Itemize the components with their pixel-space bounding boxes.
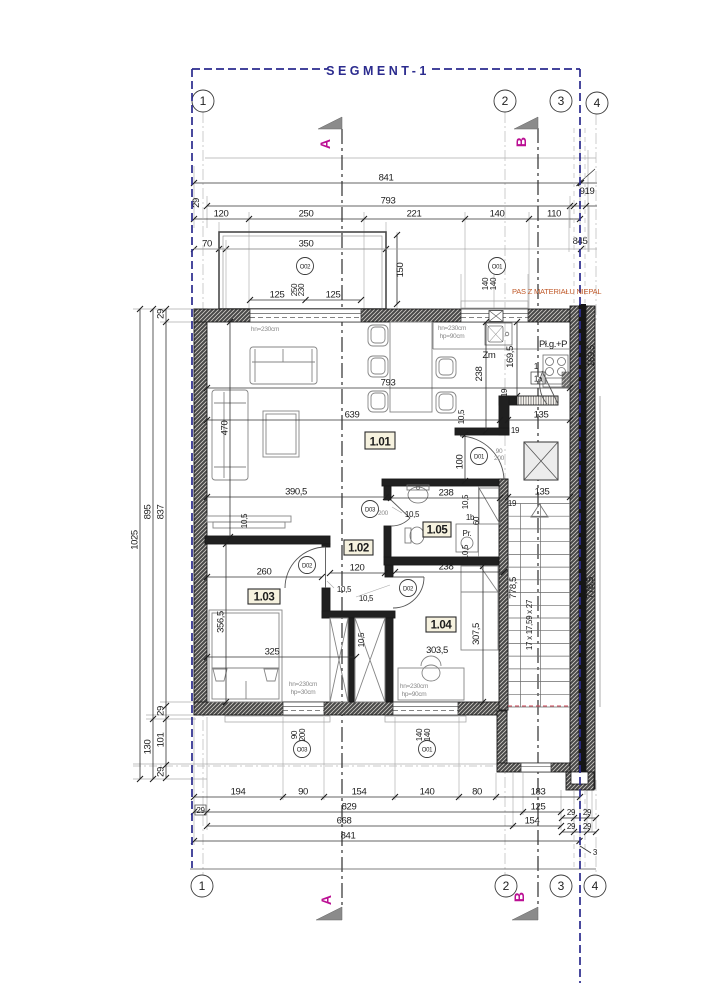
window terrace door — [250, 309, 361, 322]
sofa vertical — [212, 390, 248, 480]
dim stair 135 upper — [508, 419, 570, 421]
window marker O03 bottom — [290, 728, 311, 758]
svg-text:D01: D01 — [474, 455, 485, 461]
bed — [209, 610, 282, 702]
wardrobe divider — [348, 618, 354, 702]
segment dashed border — [192, 69, 580, 983]
outer wall bottom — [194, 702, 507, 715]
grid bubble 2 — [494, 90, 516, 112]
svg-text:841: 841 — [379, 173, 394, 184]
svg-text:29: 29 — [567, 822, 576, 831]
svg-text:200: 200 — [298, 728, 307, 741]
svg-text:135: 135 — [535, 487, 550, 498]
svg-text:1.03: 1.03 — [254, 592, 275, 604]
svg-text:120: 120 — [214, 209, 229, 220]
svg-text:29: 29 — [583, 808, 592, 817]
svg-text:hp=90cm: hp=90cm — [440, 333, 465, 340]
svg-text:140: 140 — [420, 787, 435, 798]
dim 169.5 kitchen — [516, 322, 518, 396]
grid bubble 1 — [192, 90, 214, 112]
svg-text:10,5: 10,5 — [461, 544, 470, 559]
wall bedroom/hall W2 lower — [322, 588, 330, 618]
svg-text:154: 154 — [525, 816, 540, 827]
svg-text:4: 4 — [594, 96, 601, 110]
dining chairs — [368, 325, 456, 413]
svg-text:350: 350 — [299, 239, 314, 250]
segment title — [327, 62, 430, 73]
svg-text:hn=230cm: hn=230cm — [289, 681, 317, 688]
svg-text:169,5: 169,5 — [586, 345, 597, 367]
svg-text:hn=230cm: hn=230cm — [438, 325, 466, 332]
dim 470 interior — [229, 322, 231, 537]
svg-text:1.05: 1.05 — [427, 525, 449, 537]
window marker O02 — [297, 258, 314, 275]
stairs — [508, 504, 570, 708]
svg-text:140: 140 — [423, 728, 432, 741]
svg-text:SEGMENT-1: SEGMENT-1 — [326, 64, 430, 78]
bathroom left wall lower — [384, 526, 391, 557]
grid bubble 1 — [191, 875, 213, 897]
dim hall 120 — [330, 572, 385, 574]
svg-text:90: 90 — [496, 448, 503, 455]
svg-text:778,5: 778,5 — [585, 577, 596, 599]
section line B — [537, 128, 539, 906]
svg-text:hn=230cm: hn=230cm — [400, 683, 428, 690]
window bedroom 1.03 — [283, 702, 324, 715]
svg-text:154: 154 — [352, 787, 367, 798]
svg-text:668: 668 — [337, 816, 352, 827]
svg-text:29: 29 — [196, 806, 205, 815]
dim 793 interior — [207, 387, 570, 389]
svg-text:130: 130 — [143, 740, 154, 755]
wardrobe right wall — [385, 618, 393, 702]
entry door 1 swing — [540, 371, 558, 404]
grid line 1 — [202, 112, 204, 875]
grid bubble 3 — [550, 875, 572, 897]
svg-text:260: 260 — [257, 567, 272, 578]
svg-text:230: 230 — [297, 283, 306, 296]
svg-text:194: 194 — [231, 787, 246, 798]
svg-text:O01: O01 — [492, 265, 503, 271]
svg-text:150: 150 — [395, 263, 406, 278]
dim 829 bottom — [194, 811, 561, 813]
room label 1.02 — [344, 540, 373, 555]
svg-text:Pr.: Pr. — [463, 529, 472, 538]
svg-text:390,5: 390,5 — [285, 487, 307, 498]
door D02 room4 circle — [400, 580, 417, 597]
dim 1025 left — [139, 309, 141, 779]
svg-text:1: 1 — [199, 879, 206, 893]
stairwell wall — [499, 479, 508, 710]
svg-text:3: 3 — [558, 879, 565, 893]
wall living/bedroom W1 — [205, 536, 330, 544]
grid bubble 4 — [586, 92, 608, 114]
svg-text:PAS Z MATERIAŁU NIEPAL: PAS Z MATERIAŁU NIEPAL — [512, 287, 601, 296]
entry recess wall bottom — [497, 763, 571, 772]
section flag A bottom — [316, 895, 342, 920]
dim 668 bottom — [207, 825, 561, 827]
section flag B bottom — [511, 892, 538, 920]
toilet — [405, 527, 424, 544]
svg-text:O03: O03 — [297, 748, 308, 754]
svg-text:10,5: 10,5 — [337, 585, 352, 594]
coffee table — [263, 411, 299, 457]
kitchen counter edge — [433, 348, 570, 350]
svg-text:70: 70 — [202, 239, 212, 250]
svg-text:2: 2 — [503, 879, 510, 893]
door D03 bathroom — [391, 500, 410, 526]
svg-text:200: 200 — [494, 455, 505, 462]
svg-text:19: 19 — [511, 426, 520, 435]
svg-text:19: 19 — [508, 499, 517, 508]
kitchen wall C — [455, 428, 509, 435]
dim 919 right — [578, 169, 595, 184]
dim 841 top — [194, 182, 580, 184]
entry door 1a label — [531, 362, 545, 384]
dim bath 238 — [391, 497, 500, 499]
guide lines — [133, 128, 596, 869]
svg-text:Zm: Zm — [483, 350, 496, 361]
entry recess wall vertical — [497, 711, 507, 763]
stair direction arrow — [531, 504, 548, 517]
svg-text:1.01: 1.01 — [370, 437, 392, 449]
datum dashed line — [133, 765, 592, 767]
window marker O01 bottom — [415, 728, 436, 758]
tv console — [207, 516, 291, 528]
svg-text:895: 895 — [143, 505, 154, 520]
svg-text:2: 2 — [502, 94, 509, 108]
window sill room4 — [385, 716, 466, 722]
bathroom left wall upper — [384, 486, 391, 500]
window kitchen — [461, 309, 528, 322]
svg-text:238: 238 — [439, 488, 454, 499]
svg-text:A: A — [318, 895, 334, 905]
wall wardrobe top W3 — [322, 611, 395, 618]
wardrobe left with X — [330, 618, 348, 702]
svg-text:19: 19 — [500, 388, 509, 397]
svg-text:1a: 1a — [534, 375, 543, 384]
dim room4 238 — [395, 571, 504, 573]
svg-text:B: B — [513, 137, 529, 147]
kitchen wall B — [499, 396, 509, 435]
wall bedroom/hall W2 upper — [322, 544, 330, 547]
svg-text:125: 125 — [270, 290, 285, 301]
dim 895 130 left — [152, 309, 154, 779]
door D01 circle — [471, 448, 505, 465]
svg-text:Pł.g.+P: Pł.g.+P — [539, 339, 567, 350]
dim 307.5 room4 — [482, 566, 484, 702]
svg-text:60: 60 — [472, 516, 481, 525]
bottom datum line — [190, 868, 596, 870]
bathroom bottom wall — [384, 557, 508, 565]
door D01 kitchen entry — [460, 436, 504, 480]
section line A — [341, 129, 343, 906]
svg-text:238: 238 — [439, 562, 454, 573]
grid bubble 3 — [550, 90, 572, 112]
svg-text:221: 221 — [407, 209, 422, 220]
dim hall 260 — [207, 576, 322, 578]
wall hall/room4 W4 upper — [385, 565, 393, 577]
svg-text:101: 101 — [156, 733, 167, 748]
svg-text:183: 183 — [531, 787, 546, 798]
svg-text:10,5: 10,5 — [461, 494, 470, 509]
fridge hatch — [562, 372, 570, 387]
svg-text:303,5: 303,5 — [426, 645, 448, 656]
svg-text:29: 29 — [583, 822, 592, 831]
dim 841 bottom — [194, 840, 580, 842]
door D02 bedroom circle — [299, 557, 316, 574]
dim stair 135 lower — [508, 496, 570, 498]
svg-text:140: 140 — [490, 209, 505, 220]
dim 238 kitchen — [485, 322, 487, 431]
dim chain top — [194, 218, 580, 220]
svg-text:D02: D02 — [302, 564, 313, 570]
svg-text:793: 793 — [381, 196, 396, 207]
svg-text:325: 325 — [265, 647, 280, 658]
svg-text:1.02: 1.02 — [348, 543, 369, 555]
room label 1.01 — [365, 432, 395, 449]
neighbour wall stub — [599, 396, 601, 707]
svg-text:919: 919 — [580, 186, 595, 197]
svg-text:B: B — [511, 892, 527, 902]
svg-text:778,5: 778,5 — [508, 577, 519, 599]
svg-text:125: 125 — [531, 802, 546, 813]
svg-text:829: 829 — [342, 802, 357, 813]
door D02 room4 — [393, 577, 424, 608]
window marker O01 top — [481, 258, 506, 291]
dining table — [390, 322, 432, 412]
window room 1.04 — [393, 702, 458, 715]
svg-text:29: 29 — [156, 706, 167, 716]
svg-text:837: 837 — [156, 505, 167, 520]
svg-text:110: 110 — [547, 209, 561, 220]
svg-text:10,5: 10,5 — [240, 513, 249, 528]
washing machine Pr — [456, 524, 478, 552]
dim 793 top — [207, 205, 570, 207]
party wall — [566, 304, 595, 790]
svg-text:90: 90 — [298, 787, 308, 798]
section flag B top — [513, 117, 538, 147]
svg-text:3: 3 — [558, 94, 565, 108]
svg-text:169,5: 169,5 — [505, 346, 516, 368]
svg-text:793: 793 — [381, 378, 396, 389]
svg-text:hp=90cm: hp=90cm — [402, 691, 427, 698]
svg-text:O01: O01 — [422, 748, 433, 754]
dim 29 29 right upper — [562, 817, 596, 819]
svg-text:140: 140 — [489, 277, 498, 290]
svg-text:250: 250 — [299, 209, 314, 220]
door D03 circle — [362, 501, 389, 518]
svg-text:hp=30cm: hp=30cm — [291, 689, 316, 696]
neighbour face dashed lines — [574, 128, 585, 868]
svg-text:17 x 17,59 x 27: 17 x 17,59 x 27 — [525, 599, 534, 650]
outer wall left — [194, 309, 207, 715]
leader lines 10.5 — [327, 507, 402, 597]
svg-text:D02: D02 — [403, 587, 414, 593]
svg-text:4: 4 — [592, 879, 599, 893]
svg-text:307,5: 307,5 — [471, 623, 482, 645]
dim terrace 150 — [396, 235, 398, 304]
svg-text:29: 29 — [156, 767, 167, 777]
svg-text:10,5: 10,5 — [357, 632, 366, 647]
svg-text:135: 135 — [534, 410, 549, 421]
svg-text:29: 29 — [156, 309, 167, 319]
svg-text:1025: 1025 — [130, 530, 141, 550]
terrace outline — [219, 232, 386, 309]
svg-text:470: 470 — [220, 421, 231, 436]
dim 356.5 bedroom — [225, 544, 227, 702]
svg-text:356,5: 356,5 — [216, 611, 227, 633]
wardrobe right with X — [355, 618, 385, 702]
sofa horizontal — [250, 347, 317, 384]
room label 1.05 — [423, 522, 451, 537]
kitchen wall A — [499, 396, 558, 405]
bathroom niche — [479, 486, 501, 557]
svg-text:A: A — [317, 139, 333, 149]
dim bed 325 — [207, 656, 356, 658]
svg-text:10,5: 10,5 — [457, 409, 466, 424]
section flag A top — [317, 117, 342, 149]
vent box in top wall — [489, 311, 503, 322]
window sill kitchen top — [461, 301, 528, 308]
svg-text:80: 80 — [472, 787, 482, 798]
stove Pl.g.+P — [543, 355, 568, 387]
svg-text:120: 120 — [350, 563, 365, 574]
dim chain bottom windows — [194, 796, 580, 798]
svg-text:O02: O02 — [300, 265, 311, 271]
svg-text:639: 639 — [345, 410, 360, 421]
grid bubble 2 — [495, 875, 517, 897]
desk room 1.04 — [398, 656, 464, 700]
dim terrace 70 350 — [194, 248, 386, 250]
grid line 3-4 — [595, 114, 597, 320]
room label 1.04 — [426, 617, 456, 632]
bathroom sink — [407, 485, 429, 503]
svg-text:238: 238 — [474, 367, 485, 382]
dim 639 interior — [207, 419, 500, 421]
svg-text:841: 841 — [341, 831, 356, 842]
dim 390.5 interior — [207, 496, 386, 498]
shaft with X — [524, 442, 558, 480]
window sill bedroom — [225, 716, 330, 722]
bathroom top wall — [382, 479, 508, 486]
grid line 2 — [504, 112, 506, 875]
dim 100 door — [464, 435, 466, 481]
stair bottom dashed line — [508, 705, 570, 707]
svg-text:100: 100 — [455, 455, 466, 470]
svg-text:10,5: 10,5 — [405, 510, 420, 519]
room label 1.03 — [248, 589, 280, 604]
wardrobe room 1.04 — [461, 566, 498, 650]
svg-text:D03: D03 — [365, 508, 376, 514]
svg-text:29: 29 — [567, 808, 576, 817]
outer wall top — [194, 309, 572, 322]
grid bubble 4 — [584, 875, 606, 897]
svg-text:1: 1 — [200, 94, 207, 108]
svg-text:125: 125 — [326, 290, 341, 301]
door D02 bedroom — [285, 547, 326, 588]
dim terrace 125 125 — [250, 299, 361, 301]
dim 29 29 right lower — [562, 831, 596, 833]
entry door gap — [521, 763, 551, 772]
svg-text:200: 200 — [378, 510, 389, 517]
svg-text:hn=230cm: hn=230cm — [251, 326, 279, 333]
svg-text:1.04: 1.04 — [431, 620, 453, 632]
dim 837 left — [165, 309, 167, 778]
grid 3 jog leader — [580, 846, 591, 853]
kitchen sink Zm — [485, 323, 512, 345]
